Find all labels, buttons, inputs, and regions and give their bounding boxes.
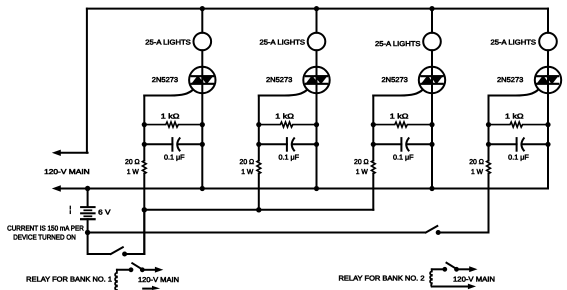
wire triac 1 gate lead — [144, 90, 193, 96]
wire main bottom bus — [58, 188, 548, 190]
wire switch S1 to gate bus 1 — [125, 253, 145, 255]
svg-text:0.1 μF: 0.1 μF — [393, 155, 414, 162]
node relay K1 right post — [140, 267, 145, 272]
node R2a right junction — [314, 122, 319, 127]
node relay K2 right post — [454, 267, 459, 272]
svg-text:1 W: 1 W — [127, 169, 139, 176]
capacitor C4 0.1 uF — [489, 138, 549, 151]
node main bus junction stage 1 — [200, 186, 205, 191]
node R3a right junction — [429, 122, 434, 127]
triac Q2 2N5273 — [303, 67, 329, 93]
svg-text:1 kΩ: 1 kΩ — [275, 112, 294, 120]
arrow relay K2 bottom 120-V main — [468, 284, 476, 290]
relay K2 coil — [430, 269, 432, 286]
node R2a left junction — [256, 122, 261, 127]
node battery top junction — [85, 186, 90, 191]
lamp DS4 25-A LIGHTS — [539, 33, 557, 51]
wire lamp 3 to triac — [431, 50, 433, 67]
node C2 left junction — [256, 142, 261, 147]
wire relay K1 coil bottom lead — [143, 288, 152, 290]
node C4 right junction — [545, 142, 550, 147]
wire 20-ohm bottom lead stage 3 — [372, 174, 374, 210]
triac Q3 2N5273 — [419, 67, 445, 93]
node R1a left junction — [142, 122, 147, 127]
svg-text:1 W: 1 W — [471, 169, 483, 176]
node main bus junction stage 3 — [429, 186, 434, 191]
svg-text:RELAY FOR BANK NO. 1: RELAY FOR BANK NO. 1 — [26, 276, 112, 283]
node C1 left junction — [142, 142, 147, 147]
wire upper 120-V main lead — [58, 152, 88, 154]
node top bus junction stage 1 — [200, 6, 205, 11]
lamp DS2 25-A LIGHTS — [308, 33, 326, 51]
wire triac 4 gate lead — [489, 90, 539, 96]
svg-text:120-V MAIN: 120-V MAIN — [44, 169, 90, 176]
arrow main bus 120-V main — [52, 185, 61, 191]
relay K1 contact blade — [132, 263, 142, 269]
resistor R2b 20 ohm 1W — [257, 161, 261, 174]
battery polarity dash marks — [69, 206, 71, 213]
svg-text:RELAY FOR BANK NO. 2: RELAY FOR BANK NO. 2 — [339, 275, 425, 282]
svg-text:CURRENT IS 150 mA PER: CURRENT IS 150 mA PER — [7, 226, 84, 233]
wire battery bottom lead — [87, 219, 89, 232]
wire relay K2 contact to 120-V main — [457, 268, 470, 270]
wire 20-ohm bottom lead stage 1 — [143, 174, 145, 255]
svg-text:2N5273: 2N5273 — [266, 77, 292, 84]
wire left vertical from top bus — [86, 9, 88, 153]
wire relay K1 coil top to contact post — [117, 269, 131, 271]
wire triac 1 MT1 to main bus — [201, 93, 203, 188]
relay K2 contact blade — [447, 263, 457, 269]
arrow relay K1 to 120-V main — [155, 267, 163, 273]
wire lamp 3 anode from top bus — [431, 9, 433, 33]
wire triac 3 gate lead — [373, 90, 423, 96]
relay K1 coil — [115, 270, 117, 290]
svg-text:2N5273: 2N5273 — [382, 77, 408, 84]
node C3 right junction — [429, 142, 434, 147]
resistor R1b 20 ohm 1W — [142, 161, 146, 174]
wire gate bus bank 1 riser — [143, 210, 145, 254]
svg-text:1 W: 1 W — [241, 169, 253, 176]
arrow relay K1 bottom 120-V main — [152, 286, 160, 290]
wire lamp 2 to triac — [316, 50, 318, 67]
node battery bottom junction — [85, 230, 90, 235]
node R4a right junction — [545, 122, 550, 127]
node switch S2 contact — [436, 230, 441, 235]
capacitor C2 0.1 uF — [259, 138, 317, 151]
wire relay K1 contact to 120-V main — [142, 269, 155, 271]
wire top bus — [87, 8, 548, 10]
wire lamp 2 anode from top bus — [316, 9, 318, 33]
wire lamp 1 anode from top bus — [201, 9, 203, 33]
wire relay K2 coil top to contact post — [432, 268, 445, 270]
wire triac 2 gate lead — [259, 90, 308, 96]
node R1a right junction — [200, 122, 205, 127]
svg-text:DEVICE TURNED ON: DEVICE TURNED ON — [13, 234, 76, 241]
arrow relay K2 to 120-V main — [469, 266, 477, 272]
triac Q1 2N5273 — [189, 67, 215, 93]
wire triac 2 MT1 to main bus — [316, 93, 318, 188]
wire battery top lead — [87, 189, 89, 208]
svg-text:2N5273: 2N5273 — [152, 77, 178, 84]
arrow upper 120-V main — [52, 150, 61, 156]
wire gate bus bank 1 horizontal — [144, 209, 373, 211]
wire switch S2 to stage 4 gate line — [439, 232, 489, 234]
switch S1 blade (bank 1 relay contact) — [111, 247, 123, 254]
triac Q4 2N5273 — [535, 67, 561, 93]
svg-text:25-A LIGHTS: 25-A LIGHTS — [260, 39, 306, 46]
resistor R3a 1 k-ohm — [373, 122, 432, 127]
wire triac 4 MT1 to main bus — [547, 93, 549, 188]
lamp DS3 25-A LIGHTS — [423, 33, 441, 51]
lamp DS1 25-A LIGHTS — [194, 33, 212, 51]
battery BT1 6 V — [81, 207, 95, 219]
svg-text:1 kΩ: 1 kΩ — [161, 112, 180, 120]
svg-text:0.1 μF: 0.1 μF — [164, 155, 185, 162]
resistor R4b 20 ohm 1W — [487, 161, 491, 174]
wire 20-ohm bottom lead stage 4 — [488, 174, 490, 233]
node C2 right junction — [314, 142, 319, 147]
resistor R1a 1 k-ohm — [144, 122, 202, 127]
svg-text:2N5273: 2N5273 — [497, 77, 523, 84]
capacitor C1 0.1 uF — [144, 138, 202, 151]
node C1 right junction — [200, 142, 205, 147]
resistor R4a 1 k-ohm — [489, 122, 549, 127]
svg-text:120-V MAIN: 120-V MAIN — [138, 277, 179, 284]
node gate bus junction stage 2 — [256, 207, 261, 212]
node relay K1 left post — [129, 267, 134, 272]
node main bus junction stage 2 — [314, 186, 319, 191]
resistor R3b 20 ohm 1W — [371, 161, 375, 174]
wire lamp 4 anode from top bus — [547, 9, 549, 33]
capacitor C3 0.1 uF — [373, 138, 432, 151]
svg-text:25-A LIGHTS: 25-A LIGHTS — [145, 39, 191, 46]
node R4a left junction — [486, 122, 491, 127]
svg-text:20 Ω: 20 Ω — [240, 159, 255, 166]
svg-text:1 kΩ: 1 kΩ — [505, 112, 524, 120]
node gate bus junction stage 1 — [142, 207, 147, 212]
wire relay K2 coil bottom lead — [432, 286, 468, 288]
wire lamp 1 to triac — [201, 50, 203, 67]
node top bus junction stage 3 — [429, 6, 434, 11]
svg-text:6 V: 6 V — [98, 209, 111, 216]
wire gate line stage 4 — [488, 96, 490, 161]
svg-text:20 Ω: 20 Ω — [354, 159, 369, 166]
svg-text:1 W: 1 W — [356, 169, 368, 176]
svg-text:25-A LIGHTS: 25-A LIGHTS — [491, 39, 537, 46]
wire gate line stage 2 — [258, 96, 260, 161]
wire gate line stage 1 — [143, 96, 145, 161]
node C4 left junction — [486, 142, 491, 147]
svg-text:20 Ω: 20 Ω — [469, 159, 484, 166]
node C3 left junction — [371, 142, 376, 147]
wire triac 3 MT1 to main bus — [431, 93, 433, 188]
wire 20-ohm bottom lead stage 2 — [258, 174, 260, 210]
svg-text:0.1 μF: 0.1 μF — [508, 155, 529, 162]
svg-text:20 Ω: 20 Ω — [125, 159, 140, 166]
wire bank 2 feed bus — [88, 232, 426, 234]
node switch S1 contact — [122, 252, 127, 257]
wire gate line stage 3 — [372, 96, 374, 161]
wire lamp 4 to triac — [547, 50, 549, 67]
wire battery to switch S1 — [88, 233, 111, 255]
svg-text:0.1 μF: 0.1 μF — [279, 155, 300, 162]
svg-text:1 kΩ: 1 kΩ — [390, 112, 409, 120]
node relay K2 left post — [442, 267, 447, 272]
resistor R2a 1 k-ohm — [259, 122, 317, 127]
node top bus junction stage 2 — [314, 6, 319, 11]
switch S2 blade (bank 2 relay contact) — [426, 226, 438, 233]
svg-text:120-V MAIN: 120-V MAIN — [453, 277, 495, 284]
svg-text:25-A LIGHTS: 25-A LIGHTS — [375, 41, 421, 48]
node R3a left junction — [371, 122, 376, 127]
